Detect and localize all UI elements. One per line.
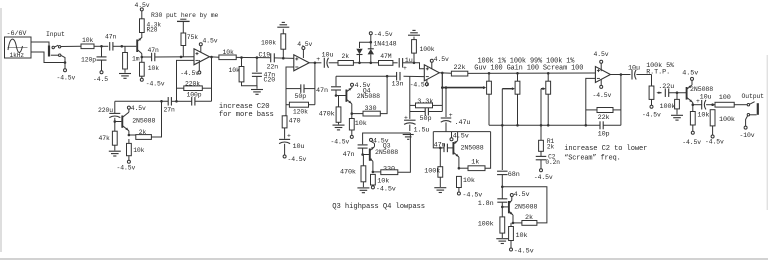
ground (below 1m) [119,73,131,75]
svg-text:100: 100 [719,94,731,102]
potentiometer VR3 Scream [547,73,549,81]
wire feedback bottom [177,100,192,102]
svg-text:50p: 50p [295,93,307,100]
resistor R30 75k [180,18,186,20]
wire 330 to riser (Q3) [398,133,411,172]
potentiometer VR4 R.T.P. 100k [651,75,653,87]
node U2 output junction [314,62,317,65]
svg-text:4.5v: 4.5v [297,41,312,48]
node Q7 emitter junction [692,103,695,106]
wire output ring to -10v [746,116,748,126]
wire Q2 emitter [122,126,129,131]
svg-text:-4.5: -4.5 [93,76,108,83]
svg-text:R.T.P.: R.T.P. [646,68,670,76]
wire pot4 bottom to -4.5v [651,99,653,105]
ground (below output 100k) [671,114,683,116]
svg-text:10k: 10k [82,37,93,44]
jack J2 output [747,104,749,106]
wire generator to jack tip [31,42,49,46]
resistor 470k (Q4 base to ground) [338,96,340,107]
power terminal -4.5v (below VR4) [650,105,653,108]
svg-text:4.5v: 4.5v [682,70,698,78]
wire 2k loop (stage D) [502,187,547,223]
svg-text:1m: 1m [132,56,140,63]
resistor 470k (Q3 base to ground) [362,155,364,166]
jack J1 input (sleeve bar) [48,46,50,57]
ground (below 47k) [109,150,121,152]
power terminal 4.5v (stage D) [510,194,513,197]
resistor 22k (U4 feedback) [586,109,597,111]
svg-text:-4.5v: -4.5v [682,139,701,146]
power terminal 4.5v (Q7) [691,77,694,80]
wire stage D emitter [509,211,513,215]
svg-text:10u: 10u [322,51,334,59]
svg-text:13n: 13n [392,81,404,89]
svg-text:100k: 100k [420,46,435,53]
svg-text:120k: 120k [293,109,308,116]
wire U3 inverting leg down [409,76,411,119]
diode D1 1N4148 [360,42,371,48]
resistor R28 4.3k (Q1 collector load) [140,19,145,33]
capacitor 50p (U2 feedback) [286,88,301,90]
svg-text:Q3 highpass Q4 lowpass: Q3 highpass Q4 lowpass [332,203,425,211]
transistor Q1 [136,40,138,53]
svg-text:100k: 100k [719,116,735,124]
power terminal -4.5v (below Q2 10k) [127,160,130,163]
svg-text:100k: 100k [478,221,494,229]
node Q3 emitter junction [372,171,375,174]
svg-text:+: + [316,56,320,63]
svg-text:2N5088: 2N5088 [375,149,398,156]
ground (below 10k/C20) [251,89,263,91]
node junction 10k/47n/120p [100,45,103,48]
svg-text:2N5088: 2N5088 [132,117,155,124]
svg-text:-4.5v: -4.5v [117,165,136,172]
svg-text:10k: 10k [355,120,367,128]
wire U2 output [309,62,321,64]
svg-text:470k: 470k [319,110,335,118]
capacitor 50p (U3 feedback) [410,111,425,113]
svg-text:R28: R28 [147,26,158,33]
power terminal -4.5v (below 10u) [283,155,286,158]
wire U2 inverting to feedback [286,67,294,116]
svg-text:100k: 100k [261,40,276,47]
svg-text:-4.5v: -4.5v [57,75,76,82]
resistor 1m to ground [124,46,126,52]
svg-text:1.5u: 1.5u [414,126,430,134]
node junction below jack [64,61,67,64]
node junction 100k/U2 input [282,57,285,60]
signal generator G1 -6/6V 1kHz [5,37,32,58]
svg-text:1N4148: 1N4148 [373,40,396,47]
resistor 47k (Q2 base to ground) [114,122,116,132]
wire U3 inverting input / 13n [404,75,425,77]
resistor 10k (Q3 emitter to -4.5v) [371,174,376,185]
capacitor 10p (feedback bottom) [599,121,601,129]
svg-text:470k: 470k [340,168,356,176]
svg-text:47n: 47n [148,47,159,54]
svg-text:-4.5v: -4.5v [376,185,396,193]
resistor 100k (stage D base to ground) [501,207,503,217]
svg-text:increase C20: increase C20 [219,103,270,111]
node stage C base junction [439,147,442,150]
resistor R1 2k [540,125,542,140]
svg-text:“Scream” freq.: “Scream” freq. [564,155,621,163]
wire collector rail (stage C) [433,131,490,133]
wire Q7 emitter [687,97,693,102]
svg-text:-4.5v: -4.5v [374,31,393,38]
power terminal -4.5v (below output 100k) [711,135,714,138]
svg-text:120p: 120p [81,57,96,64]
wire ring contact to junction [61,55,65,62]
svg-text:47M: 47M [380,53,391,60]
svg-text:Guv 100 Gain 100 Scream 100: Guv 100 Gain 100 Scream 100 [474,64,583,72]
power terminal -4.5v (below Q7 10k) [691,131,694,134]
resistor 10k (Q7 emitter to -4.5v) [692,105,694,112]
ground (below stage D 100k) [496,238,508,240]
power terminal -4.5v (input jack) [64,69,67,72]
svg-text:1.8n: 1.8n [478,200,494,208]
svg-text:4.5v: 4.5v [131,105,146,112]
capacitor C2 0.2u [540,151,542,156]
node junction C20 top [256,56,259,59]
power terminal -4.5v (below 120p) [100,71,103,74]
wire pots bottom rail [489,124,600,126]
power terminal -4.5v (below Q4 10k) [350,135,353,138]
ground (above 100k, inverted) [277,26,289,28]
svg-text:-10v: -10v [740,132,755,139]
svg-text:Input: Input [46,31,65,38]
resistor 120k (U2 feedback) [289,102,308,107]
node junction wiper feed [441,86,444,89]
wire U4 output [610,74,630,76]
svg-text:.22u: .22u [658,83,674,91]
svg-text:C20: C20 [264,77,276,84]
svg-text:100k: 100k [424,167,440,175]
wire right-edge scan streak [766,55,768,210]
transistor Q2 2N5088 [121,116,123,128]
svg-text:10k: 10k [148,65,159,72]
ground (below Q3 470k) [357,187,369,189]
svg-text:100k: 100k [660,103,676,111]
svg-text:22k: 22k [598,114,610,122]
node Q2 emitter junction [128,134,131,137]
wire top rail to U4 [468,72,596,74]
op-amp U4 [595,67,610,83]
wire Q3 base [363,154,369,156]
svg-text:47n: 47n [343,151,355,159]
ground (below Q4 470k) [333,124,345,126]
power terminal 4.5v (stage C) [451,132,453,138]
svg-text:-4.5v: -4.5v [410,81,429,88]
wire bottom-edge scan streak [0,258,768,260]
wire stage C emitter [453,152,459,157]
power terminal 4.5v (Q4) [351,83,354,86]
svg-text:10k: 10k [697,112,709,120]
wire pot1 wiper feed (bold) [442,87,485,89]
svg-text:+: + [696,98,700,105]
svg-text:50p: 50p [420,115,432,123]
wire U2 output to feedback right [314,63,316,105]
resistor 10k (stage D to -4.5v) [510,223,512,227]
power terminal 4.5v (U1) [200,46,202,53]
svg-text:22n: 22n [267,63,279,70]
wire 330 to riser [380,76,387,113]
jack J1 tip contact [52,46,54,48]
svg-text:10k: 10k [463,177,475,185]
wire pot3 wiper down [541,88,545,90]
wire U4 output down [620,75,622,126]
transistor Q3 2N5088 [369,149,371,161]
svg-text:2N5088: 2N5088 [514,204,537,211]
wire U1 output to feedback right [211,57,213,101]
power terminal -4.5v (U3) [426,80,428,83]
wire U1 output [210,56,219,59]
svg-text:-4.5v: -4.5v [514,248,534,256]
ground (above 100k, inverted) [408,34,420,36]
svg-text:2k: 2k [547,143,555,150]
svg-text:-4.5v: -4.5v [593,92,612,99]
svg-text:10u: 10u [293,143,305,151]
svg-text:-4.5v: -4.5v [534,174,553,181]
wire Q2 base [115,121,122,123]
node junction 10k/10k [240,56,243,59]
node U4 output junction [620,73,623,76]
capacitor 47n (Q4 input) [335,76,337,86]
wire 2k to feedback riser [151,101,161,137]
node junction booster output riser [160,100,163,103]
wire to U3 plus input [414,63,424,69]
wire U3 output [439,72,451,75]
node junction 68n/2k loop [501,175,503,187]
resistor 100k (stage C base) [439,148,441,167]
svg-text:-4.5v: -4.5v [146,81,165,88]
svg-text:27n: 27n [164,107,175,114]
node junction 47n/1m/gate [121,45,124,48]
node junction under 75k [180,56,183,59]
jack J1 ring contact [51,54,58,56]
svg-text:4.5v: 4.5v [135,2,150,9]
power terminal 4.5v (U3) [431,62,433,69]
transistor Q4 2N5088 [345,90,347,102]
node feedback-left junction [175,100,178,103]
svg-text:10k: 10k [133,147,144,154]
capacitor 1.8n (stage D) [501,187,503,199]
node Q4 base junction [335,94,338,97]
svg-text:-4.5v: -4.5v [462,191,482,199]
wire pot2 wiper from 68n riser [502,88,514,90]
wire U1 inverting input to feedback [177,60,195,101]
op-amp U2 [294,55,309,71]
wire Q4 collector rail [336,75,387,77]
node Q2 base junction [114,120,117,123]
power terminal -10v (output) [744,126,747,129]
power terminal -4.5v (U4) [600,79,602,85]
wire stage C input stub [433,132,444,148]
power terminal -4.5v (stage D) [510,248,513,251]
svg-text:68n: 68n [508,171,520,179]
node bottom rail junctions [501,124,504,127]
svg-text:0.2n: 0.2n [545,159,560,166]
resistor 470 (U2 inverting leg) [285,115,286,117]
wire gate to Q1 [125,45,136,47]
power terminal -4.5v (U1) [198,60,200,71]
power terminal 4.5v (Q2 collector) [127,106,130,109]
power terminal 4.5v (Q3) [370,138,373,141]
node U1 output junction [210,56,213,59]
node junction 10u/100k out [711,103,714,106]
node junction 1u/100k [413,62,416,65]
svg-text:R30 put here by me: R30 put here by me [151,12,218,19]
svg-text:470: 470 [289,118,301,126]
diode D2 1N4148 [370,42,372,48]
op-amp U3 [424,65,439,81]
resistor 10k (stage C to -4.5v) [457,176,462,187]
wire stage D base [502,206,508,208]
node Q3 base junction [361,153,364,156]
svg-text:4.5v: 4.5v [594,51,609,58]
transistor Q6 2N5088 (stage D) [508,201,510,213]
transistor Q5 2N5088 (stage C) [452,142,454,155]
svg-text:C19: C19 [259,51,271,58]
svg-text:1kHz: 1kHz [10,52,25,59]
ground (below stage C 100k) [434,187,446,189]
svg-text:-4.5v: -4.5v [642,112,661,119]
power terminal -4.5v (diodes) [370,35,372,43]
power terminal -4.5v (below C2) [540,169,543,172]
resistor 10k (Q1 emitter to -4.5v) [141,57,143,62]
potentiometer VR1 Guv [488,73,490,81]
node stage C emitter junction [458,167,461,170]
svg-text:2N5088: 2N5088 [690,86,713,93]
node stage D emitter junction [512,222,515,225]
svg-text:47n: 47n [316,87,328,95]
node diode top junction [370,41,373,44]
svg-text:2k: 2k [342,53,350,60]
svg-text:4.5v: 4.5v [203,38,218,45]
resistor 100k (Q7 base to ground) [676,93,678,100]
svg-text:10p: 10p [598,130,610,138]
power terminal 4.5v (U4) [600,63,602,71]
svg-text:-4.5v: -4.5v [331,139,350,146]
wire Q1 emitter [137,50,142,54]
svg-text:-4.5v: -4.5v [705,138,724,145]
wire 1k loop up to rail [485,132,491,169]
transistor Q7 2N5088 (output buffer) [686,87,688,100]
svg-text:220u: 220u [98,107,113,114]
power terminal -4.5v (below Q1 10k) [140,78,143,81]
svg-text:4.5v: 4.5v [514,191,530,199]
svg-text:-4.5v: -4.5v [180,70,199,77]
power terminal 4.5v (U2) [302,50,304,59]
svg-text:+: + [403,65,407,72]
svg-text:-6/6V: -6/6V [7,30,28,38]
wire generator bottom to ring/-4.5v [31,52,65,63]
svg-text:Output: Output [742,93,765,100]
ground (below 1.5u) [403,134,414,136]
svg-text:100p: 100p [187,91,202,98]
svg-text:10k: 10k [516,232,528,240]
svg-text:2N5088: 2N5088 [461,145,484,152]
node clipper junction left [358,62,361,65]
wire Q3 input from rail [363,133,411,144]
wire Q4 emitter [346,99,351,104]
svg-text:2N5088: 2N5088 [357,93,380,100]
resistor 10k (Q2 emitter to -4.5v) [128,139,130,143]
node junction 330 riser [386,75,389,78]
wire Q4 base [336,95,346,97]
power terminal 4.5v (above R28) [140,8,143,11]
capacitor 13n [396,72,398,81]
node U3 output junction [441,72,444,75]
svg-text:10u: 10u [628,65,640,73]
op-amp U1 [194,49,210,65]
wire left-edge scan streak [0,8,2,252]
node Q4 emitter junction [351,112,354,115]
svg-text:increase C2 to lower: increase C2 to lower [564,145,647,153]
svg-text:4.5v: 4.5v [434,56,449,63]
svg-text:4.5v: 4.5v [453,133,469,141]
resistor 10k (Q4 emitter to -4.5v) [349,119,354,131]
svg-text:4.5v: 4.5v [355,82,371,90]
svg-text:47n: 47n [105,34,116,41]
power terminal -4.5v (stage C) [457,192,460,195]
wire U3 output to feedback right [441,73,443,112]
node stage D base junction [501,206,504,209]
node junction 100k/base [676,91,679,94]
wire Q3 emitter [370,158,373,161]
capacitor 68n [497,170,508,172]
svg-text:47k: 47k [99,135,110,142]
svg-text:4.5v: 4.5v [373,138,389,145]
svg-text:1u: 1u [405,57,413,65]
wire booster top [115,100,168,102]
node clipper junction right [370,62,373,65]
svg-text:+: + [287,132,291,139]
capacitor .47u electrolytic (U3 out) [445,88,447,117]
wire jack tip to R 10k [61,45,81,47]
svg-text:10k: 10k [229,67,240,74]
potentiometer VR2 Gain [517,73,519,81]
svg-text:for more bass: for more bass [219,111,274,119]
wire U4 inverting to feedback [586,78,596,125]
svg-text:75k: 75k [187,34,198,41]
node Q1 emitter junction [141,56,144,59]
power terminal -4.5v (below Q3 10k) [371,186,374,189]
svg-text:-4.5v: -4.5v [288,156,307,163]
wire junction down to -4.5v terminal [64,63,66,69]
resistor 100k (output shunt) [710,110,715,126]
svg-text:.47u: .47u [455,119,471,127]
